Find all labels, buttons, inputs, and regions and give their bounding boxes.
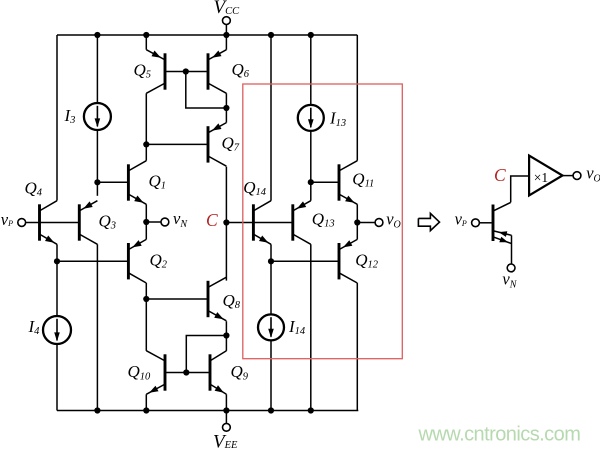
label Q6: [232, 60, 250, 80]
label Q9: [231, 362, 249, 382]
label Q8: [223, 291, 241, 311]
buffer amplifier x1: [529, 156, 562, 196]
label Q12: [355, 251, 379, 271]
label I14: [288, 317, 306, 337]
transistor Q7: [208, 123, 226, 167]
wire Q8 emitter vertical: [225, 321, 227, 351]
wire Q7 emitter vertical: [225, 108, 227, 123]
label node C: [206, 210, 218, 230]
terminal vO: [375, 219, 383, 227]
node dot bottom rail Q3: [94, 407, 100, 413]
node dot Q11 base / I13: [308, 179, 314, 185]
current source I14: [258, 314, 284, 340]
red highlight box around output stage: [243, 84, 402, 359]
terminal right vP: [472, 219, 480, 227]
node dot bottom rail Q13: [308, 407, 314, 413]
current source I13: [298, 105, 324, 131]
wire Q9 emitter vertical: [225, 394, 227, 410]
watermark: [418, 424, 581, 446]
label Q4: [25, 179, 43, 199]
node dot Q12 base: [268, 258, 274, 264]
wire Q1 emitter to vN node: [145, 204, 147, 222]
wire Q14 emitter vertical: [270, 244, 272, 261]
wire Q13 collector vertical: [310, 244, 312, 410]
svg-text:C: C: [494, 165, 506, 185]
wire right vP stub: [479, 222, 492, 224]
wire base tie jog down: [186, 72, 227, 109]
transistor Q12: [339, 239, 357, 283]
terminal right vO: [573, 172, 581, 180]
transistor Q13: [293, 201, 311, 245]
wire Q10 emitter vertical: [145, 394, 147, 410]
wire Q11 emitter to vO node: [356, 204, 358, 222]
wire Q12 base: [271, 260, 338, 262]
transistor Q11: [339, 161, 357, 205]
wire Q14 collector vertical: [270, 35, 272, 201]
wire right collector up to buffer: [511, 176, 529, 202]
transistor Q1: [128, 161, 146, 205]
label Q1: [149, 171, 167, 191]
node dot top rail I3: [94, 32, 100, 38]
node dot top rail VCC: [223, 32, 229, 38]
label Q2: [150, 250, 168, 270]
terminal VEE: [223, 423, 231, 431]
wire vN stub: [146, 221, 161, 223]
wire Q10 collector vertical: [145, 299, 147, 351]
emitter arrow into bar (pnp of composite): [499, 231, 508, 237]
node dot Q5 Q6 bases: [183, 68, 189, 74]
wire right emitter down to vN: [511, 235, 513, 264]
label Q5: [134, 60, 152, 80]
label Q10: [128, 362, 152, 382]
label Q3: [99, 211, 117, 231]
label right vO: [586, 163, 600, 184]
wire Q2 emitter vertical: [145, 222, 147, 239]
transistor Q2: [128, 239, 146, 283]
label I13: [329, 109, 346, 129]
node dot Q9 Q10 bases: [183, 369, 189, 375]
wire node C to Q13 base: [226, 222, 291, 224]
node dot top rail Q14: [268, 32, 274, 38]
terminal right vN: [507, 264, 515, 272]
wire base tie to Q8 emitter jog: [186, 336, 226, 373]
node dot vN: [143, 219, 149, 225]
label I3: [64, 106, 76, 126]
node dot Q8 emitter: [223, 332, 229, 338]
svg-text:www.cntronics.com: www.cntronics.com: [418, 424, 581, 446]
terminal vP: [18, 219, 26, 227]
wire Q9 Q10 base tie: [166, 372, 209, 374]
wire Q6 collector vertical: [225, 93, 227, 108]
transistor Q8: [208, 277, 226, 321]
block arrow symbol: [418, 213, 439, 230]
wire I14 branch upper: [270, 261, 272, 315]
node dot Q7 base: [143, 141, 149, 147]
terminal VCC: [223, 17, 231, 25]
label Q13: [312, 209, 335, 229]
current source I4: [43, 316, 71, 344]
wire I14 branch lower: [270, 340, 272, 411]
node dot Q2 base / I4: [54, 258, 60, 264]
wire VCC terminal stub: [225, 24, 227, 35]
node dot vO: [354, 219, 360, 225]
wire left rail (Q4 collector to VCC rail): [56, 35, 58, 201]
label Q7: [222, 133, 240, 153]
wire Q5 emitter vertical: [145, 35, 147, 50]
transistor Q3: [79, 201, 97, 245]
label right vP: [455, 209, 467, 228]
wire Q11 base: [311, 181, 338, 183]
wire top VCC rail: [57, 34, 357, 36]
wire I13 branch lower: [310, 130, 312, 182]
wire I3 branch lower: [96, 130, 98, 183]
wire I4 branch lower: [56, 343, 58, 410]
transistor Q5: [146, 50, 165, 94]
wire Q5 Q6 base tie: [166, 71, 207, 73]
wire I13 branch upper: [310, 35, 312, 105]
wire vO stub: [357, 222, 375, 224]
wire Q8 base: [146, 298, 207, 300]
transistor composite (right): [493, 202, 512, 243]
wire bottom VEE rail: [57, 410, 358, 412]
wire Q13 emitter vertical: [310, 182, 312, 201]
node dot Q8 base: [143, 296, 149, 302]
transistor Q10: [146, 351, 165, 395]
current source I3: [84, 103, 111, 130]
transistor Q6: [208, 50, 226, 94]
wire vP line to Q3 Q4 bases: [25, 222, 78, 224]
svg-text:C: C: [206, 210, 218, 230]
label vN: [173, 209, 188, 230]
wire I4 branch upper (Q4 emitter): [56, 244, 58, 316]
wire Q7 base: [146, 143, 207, 145]
label VCC: [214, 0, 241, 18]
label VEE: [213, 432, 238, 453]
wire Q7 collector to Q8 collector (node C vertical): [225, 167, 227, 281]
wire I3 branch upper: [96, 35, 98, 104]
node dot top rail I13: [308, 32, 314, 38]
transistor Q9: [210, 351, 226, 395]
label I4: [28, 317, 41, 337]
wire Q2 collector vertical: [145, 283, 147, 299]
wire Q6 emitter vertical: [225, 35, 227, 50]
label vP: [1, 210, 13, 229]
terminal vN: [161, 218, 169, 226]
emitter arrow outward (npn of composite): [499, 237, 508, 243]
wire buffer output stub: [563, 175, 574, 177]
wire Q1 base: [97, 181, 127, 183]
wire Q3 emitter vertical: [96, 182, 98, 196]
node dot Q1 base / I3: [94, 179, 100, 185]
wire Q11 collector vertical: [356, 35, 358, 161]
label right node C: [494, 165, 506, 185]
transistor Q14: [253, 201, 271, 245]
node C dot: [223, 219, 229, 225]
wire VEE terminal stub: [225, 411, 227, 424]
wire Q2 base: [57, 260, 127, 262]
wire Q12 emitter vertical: [356, 223, 358, 240]
node dot Q6 collector: [223, 105, 229, 111]
node dot top rail Q5: [143, 32, 149, 38]
label right vN: [502, 270, 517, 291]
wire Q3 collector vertical: [96, 244, 98, 410]
node dot bottom rail Q10: [143, 407, 149, 413]
transistor Q4: [40, 201, 58, 245]
label Q11: [352, 169, 374, 189]
svg-text:×1: ×1: [534, 170, 548, 185]
node dot bottom rail VEE: [223, 407, 229, 413]
label vO: [386, 209, 401, 230]
label Q14: [243, 178, 267, 198]
wire Q12 collector vertical: [356, 283, 358, 411]
node dot bottom rail I14: [268, 407, 274, 413]
wire Q5 collector to Q1 collector vertical: [145, 93, 147, 160]
